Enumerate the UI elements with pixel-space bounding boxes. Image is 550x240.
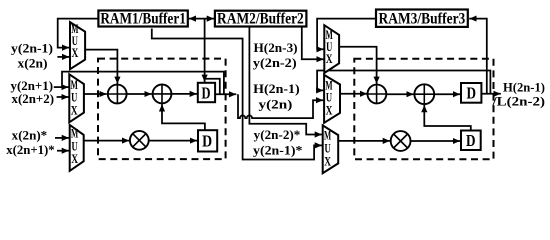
svg-text:RAM3/Buffer3: RAM3/Buffer3 [379, 10, 466, 27]
svg-text:H(2n-3): H(2n-3) [254, 40, 298, 55]
svg-text:y(2n-1)*: y(2n-1)* [253, 142, 302, 157]
svg-text:D: D [466, 83, 476, 102]
svg-text:D: D [202, 83, 211, 102]
svg-text:x(2n+1)*: x(2n+1)* [6, 142, 55, 157]
svg-text:X: X [326, 51, 333, 66]
svg-text:RAM2/Buffer2: RAM2/Buffer2 [217, 11, 304, 28]
svg-text:y(2n-2): y(2n-2) [253, 55, 297, 70]
svg-text:y(2n): y(2n) [259, 97, 293, 112]
svg-text:RAM1/Buffer1: RAM1/Buffer1 [100, 11, 186, 28]
svg-text:H(2n-1): H(2n-1) [503, 80, 545, 95]
svg-text:x(2n): x(2n) [18, 56, 48, 71]
svg-text:X: X [71, 151, 78, 166]
svg-text:/L(2n-2): /L(2n-2) [491, 93, 545, 108]
svg-text:x(2n+2): x(2n+2) [12, 91, 55, 106]
svg-text:D: D [466, 131, 476, 150]
svg-text:x(2n)*: x(2n)* [12, 128, 48, 143]
svg-text:y(2n-1): y(2n-1) [11, 40, 53, 55]
svg-text:y(2n-2)*: y(2n-2)* [254, 127, 301, 142]
svg-text:H(2n-1): H(2n-1) [253, 81, 300, 96]
svg-text:D: D [202, 132, 212, 151]
svg-text:X: X [71, 103, 78, 118]
svg-text:X: X [72, 45, 79, 60]
svg-text:X: X [326, 103, 333, 118]
svg-text:X: X [324, 154, 331, 169]
